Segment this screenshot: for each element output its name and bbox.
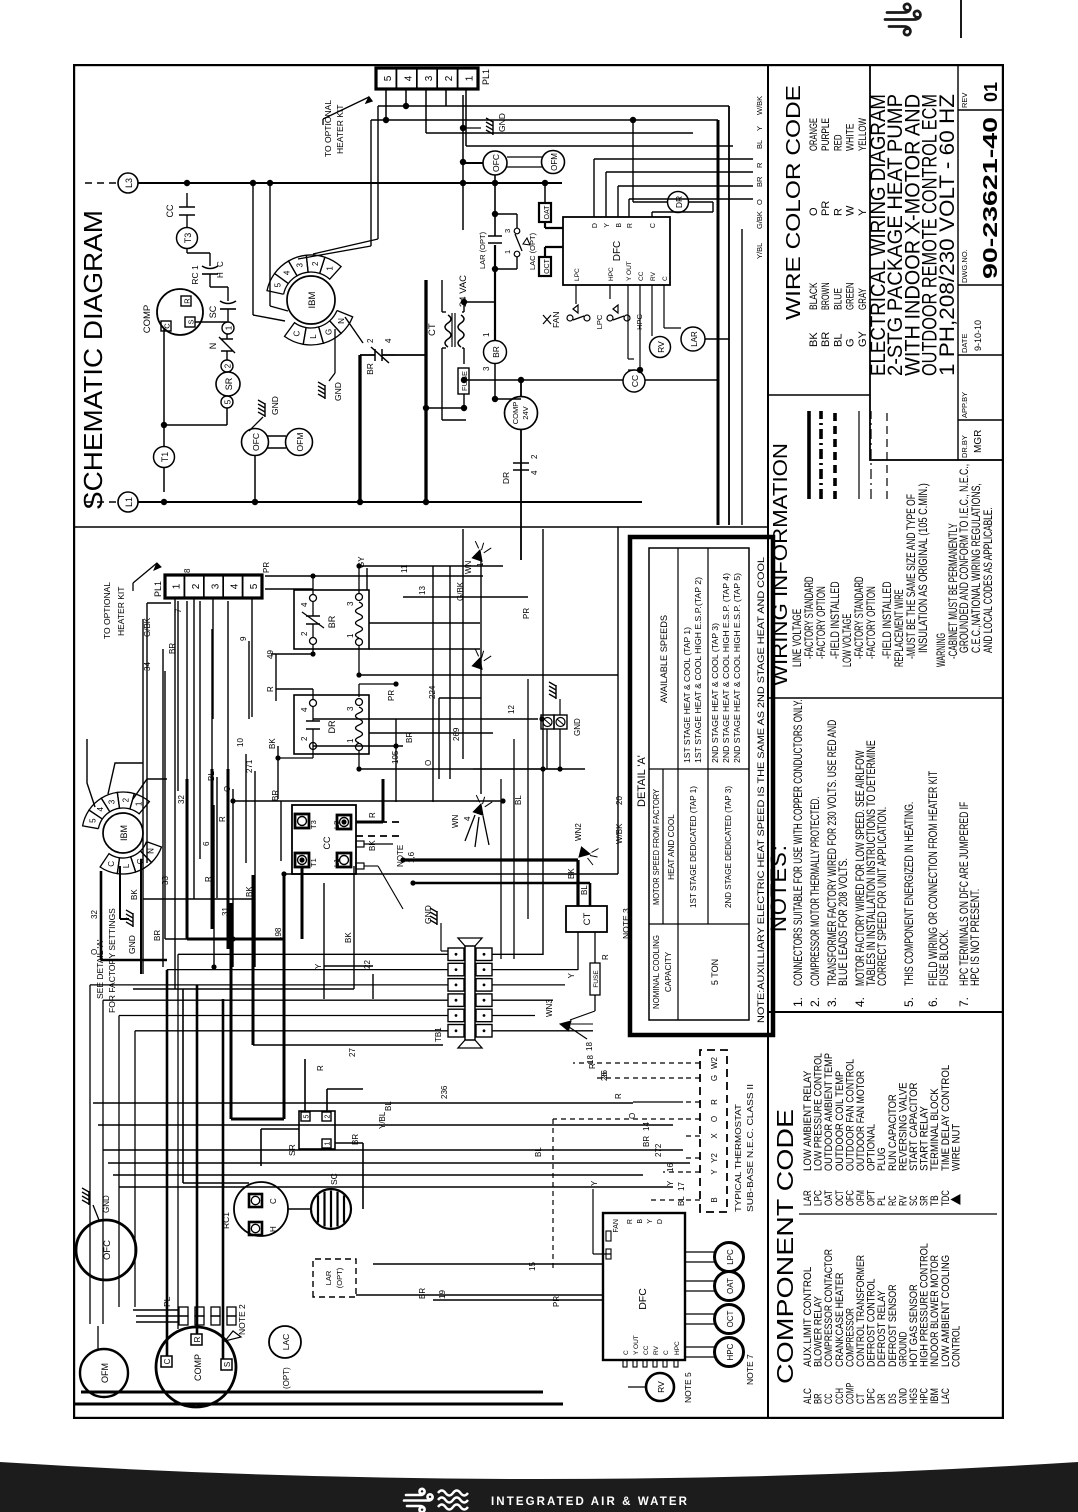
svg-text:Y: Y — [857, 208, 869, 216]
svg-text:GREEN: GREEN — [845, 282, 857, 310]
node wirelabel-G/BK — [755, 211, 764, 229]
node LAR-opt — [313, 1259, 356, 1297]
node WN-mid — [472, 649, 492, 670]
svg-text:13: 13 — [418, 586, 427, 595]
svg-text:DATE: DATE — [960, 334, 969, 353]
node HPC-circ — [685, 1338, 744, 1367]
svg-text:BK: BK — [808, 332, 820, 347]
wire — [253, 875, 443, 1045]
svg-text:SC: SC — [208, 305, 218, 318]
svg-text:5: 5 — [274, 282, 283, 287]
svg-text:THIS COMPONENT ENERGIZED IN HE: THIS COMPONENT ENERGIZED IN HEATING. — [902, 802, 916, 986]
svg-text:NOTES:: NOTES: — [766, 844, 791, 932]
svg-text:R: R — [266, 686, 275, 692]
svg-text:CORRECT SPEED FOR UNIT APPLICA: CORRECT SPEED FOR UNIT APPLICATION. — [875, 807, 889, 986]
wire — [576, 285, 681, 373]
svg-text:-FACTORY OPTION: -FACTORY OPTION — [814, 586, 828, 659]
svg-text:L: L — [122, 863, 131, 868]
svg-text:R: R — [627, 223, 634, 228]
ground — [423, 905, 448, 951]
svg-text:CAPACITY: CAPACITY — [664, 951, 673, 992]
svg-text:RV: RV — [650, 271, 657, 281]
svg-text:BR: BR — [365, 363, 375, 375]
wire — [444, 89, 560, 106]
transformer CT — [427, 275, 469, 348]
wire — [164, 408, 227, 425]
svg-text:SCHEMATIC DIAGRAM: SCHEMATIC DIAGRAM — [78, 210, 108, 510]
svg-text:BROWN: BROWN — [820, 282, 832, 310]
svg-text:Y: Y — [604, 223, 611, 228]
svg-text:32: 32 — [90, 910, 99, 919]
svg-text:O: O — [223, 786, 232, 792]
wire — [705, 338, 729, 340]
svg-text:236: 236 — [440, 1085, 449, 1099]
wire — [741, 229, 743, 525]
svg-text:DR: DR — [501, 472, 511, 484]
svg-text:COMPRESSOR MOTOR THERMALLY PRO: COMPRESSOR MOTOR THERMALLY PROTECTED. — [808, 797, 822, 986]
svg-text:NOTE 5: NOTE 5 — [683, 1372, 693, 1403]
svg-text:C: C — [163, 1358, 172, 1364]
svg-text:4: 4 — [463, 816, 472, 821]
wire L1-rail — [138, 501, 642, 503]
svg-text:ORANGE: ORANGE — [808, 118, 820, 151]
node thermostat-tags — [586, 1055, 686, 1206]
ground — [249, 396, 280, 431]
inductor CC-coil — [623, 370, 645, 392]
node PL1-conn — [153, 575, 262, 598]
svg-text:2: 2 — [300, 631, 309, 636]
svg-text:H: H — [216, 272, 225, 278]
wire top-divider — [960, 0, 962, 38]
node heater-label2 — [102, 563, 161, 639]
wire — [395, 354, 426, 356]
svg-text:LAR (OPT): LAR (OPT) — [478, 231, 487, 269]
svg-text:1: 1 — [325, 266, 334, 271]
svg-text:OFM: OFM — [295, 433, 305, 452]
svg-text:Y: Y — [755, 126, 764, 131]
fuse FUSE — [426, 348, 469, 411]
wire — [683, 1077, 700, 1079]
svg-text:105: 105 — [391, 750, 400, 764]
svg-text:OAT: OAT — [726, 1278, 735, 1294]
svg-text:OFC: OFC — [102, 1240, 113, 1260]
svg-text:G/BK: G/BK — [456, 581, 465, 601]
svg-text:COMP: COMP — [511, 402, 520, 425]
wire — [630, 117, 713, 212]
svg-text:2: 2 — [530, 454, 539, 459]
svg-text:LAR: LAR — [690, 331, 699, 347]
svg-text:NOTE: NOTE — [396, 845, 405, 867]
svg-text:3: 3 — [503, 229, 512, 233]
svg-text:OAT: OAT — [544, 205, 551, 220]
svg-text:BK: BK — [344, 932, 353, 943]
svg-text:RC 1: RC 1 — [190, 265, 200, 285]
svg-text:R: R — [710, 1099, 719, 1105]
wire — [560, 106, 729, 525]
svg-text:G/BK: G/BK — [755, 211, 764, 229]
svg-text:APP.BY: APP.BY — [960, 392, 969, 418]
svg-text:1: 1 — [503, 250, 512, 254]
svg-text:R: R — [601, 954, 610, 960]
wire — [423, 280, 429, 505]
svg-text:N: N — [147, 848, 156, 854]
svg-text:BLUE: BLUE — [832, 288, 844, 310]
node NOTE2 — [237, 1304, 247, 1335]
svg-text:B: B — [710, 1197, 719, 1202]
svg-text:RV: RV — [656, 1381, 666, 1393]
svg-text:Y/BL: Y/BL — [378, 1111, 387, 1129]
svg-text:SR: SR — [224, 377, 234, 390]
svg-text:C: C — [293, 330, 302, 336]
wire — [461, 377, 623, 399]
svg-text:3: 3 — [210, 583, 221, 589]
svg-text:GND: GND — [573, 718, 582, 736]
wire — [553, 1063, 683, 1269]
wire — [175, 598, 252, 989]
svg-text:DFC: DFC — [637, 1288, 649, 1310]
wire O-32 — [90, 871, 167, 960]
svg-text:1 PH,208/230 VOLT - 60 HZ: 1 PH,208/230 VOLT - 60 HZ — [936, 94, 959, 376]
svg-text:TB1: TB1 — [434, 1027, 443, 1042]
wire — [683, 1118, 700, 1120]
node LAC — [269, 1326, 301, 1389]
svg-text:INSULATION AS ORIGINAL (105 C.: INSULATION AS ORIGINAL (105 C.MIN.) — [916, 483, 930, 653]
wire dashed-BK-R — [356, 812, 416, 867]
svg-text:R: R — [368, 812, 377, 818]
node DR-relay — [294, 695, 369, 754]
wire wiringinfo-colorcode-divider — [768, 394, 870, 396]
wire — [161, 329, 167, 447]
svg-text:T1: T1 — [160, 452, 170, 463]
wire relay-connectors — [278, 566, 396, 769]
transistor IBM-conn — [83, 792, 162, 874]
svg-text:RV: RV — [656, 341, 666, 353]
svg-text:DETAIL 'A': DETAIL 'A' — [636, 755, 648, 807]
node wiring-information — [770, 411, 995, 686]
svg-text:5 TON: 5 TON — [710, 959, 720, 985]
wire — [466, 89, 733, 146]
svg-text:WHITE: WHITE — [845, 124, 857, 152]
svg-text:Y: Y — [590, 1180, 599, 1186]
svg-text:R: R — [316, 1065, 325, 1071]
wire WBK-20 — [615, 527, 624, 874]
wire — [461, 299, 495, 312]
svg-text:2ND STAGE DEDICATED (TAP 3): 2ND STAGE DEDICATED (TAP 3) — [724, 786, 733, 908]
wire — [590, 1180, 611, 1254]
svg-text:NOTE:AUXILLIARY ELECTRIC HEAT: NOTE:AUXILLIARY ELECTRIC HEAT SPEED IS T… — [756, 557, 766, 1023]
svg-text:01: 01 — [981, 82, 1001, 102]
wire — [231, 1118, 284, 1121]
wire — [460, 95, 466, 230]
svg-text:IBM: IBM — [119, 825, 129, 841]
node OFM2 — [507, 151, 565, 174]
svg-text:GND: GND — [497, 113, 507, 132]
svg-text:CC: CC — [322, 836, 332, 849]
wire — [128, 1304, 183, 1322]
svg-text:2.: 2. — [808, 997, 822, 1007]
node footer-bar — [0, 1455, 1078, 1512]
svg-text:OFM: OFM — [550, 153, 559, 171]
node HPC-switch — [607, 305, 644, 330]
svg-text:31: 31 — [221, 907, 230, 916]
node wirelabel-BL — [755, 140, 764, 149]
svg-text:PR: PR — [552, 1296, 561, 1307]
svg-text:2ND STAGE HEAT & COOL HIGH E.S: 2ND STAGE HEAT & COOL HIGH E.S.P. (TAP 4… — [722, 573, 731, 763]
svg-text:10: 10 — [236, 738, 245, 747]
svg-text:5: 5 — [383, 75, 394, 81]
svg-text:5: 5 — [249, 583, 260, 589]
node PL-plug — [162, 1296, 236, 1325]
node see-detail — [95, 908, 117, 1013]
svg-text:OFC: OFC — [491, 154, 501, 172]
svg-text:3.: 3. — [825, 997, 839, 1007]
svg-text:7: 7 — [174, 608, 183, 613]
svg-text:G: G — [325, 329, 334, 335]
svg-text:W/BK: W/BK — [615, 823, 624, 844]
op-amp DFC — [563, 217, 670, 285]
wire — [606, 172, 753, 217]
svg-text:DR: DR — [327, 720, 337, 733]
svg-text:O: O — [808, 207, 820, 216]
wire — [442, 280, 466, 420]
wire field-v — [75, 566, 690, 1404]
node BR-relay — [294, 590, 369, 649]
node OFM — [286, 429, 313, 456]
wire — [267, 180, 288, 311]
wire — [378, 89, 444, 109]
svg-text:BK: BK — [368, 840, 377, 851]
svg-text:CONTROL: CONTROL — [950, 1326, 962, 1367]
svg-text:OFC: OFC — [251, 433, 261, 451]
svg-text:269: 269 — [452, 727, 461, 741]
svg-text:2: 2 — [325, 1114, 332, 1118]
svg-text:MGR: MGR — [973, 430, 984, 453]
wire — [560, 120, 718, 525]
svg-text:1.: 1. — [791, 997, 805, 1007]
wire — [298, 120, 371, 259]
wire — [371, 89, 560, 123]
svg-text:9: 9 — [239, 636, 248, 641]
svg-text:REV: REV — [960, 93, 969, 108]
svg-text:-FACTORY OPTION: -FACTORY OPTION — [864, 586, 878, 659]
wire — [683, 1157, 700, 1159]
svg-text:OCT: OCT — [544, 258, 551, 274]
svg-text:18: 18 — [585, 1042, 594, 1051]
svg-text:7.: 7. — [957, 997, 971, 1007]
svg-text:BL: BL — [755, 140, 764, 149]
svg-text:BR: BR — [271, 790, 280, 801]
svg-text:Y: Y — [666, 1180, 675, 1186]
svg-text:L1: L1 — [332, 859, 341, 867]
svg-text:1: 1 — [134, 801, 143, 806]
fuse FUSE2 — [590, 932, 610, 1011]
node component-code — [772, 1053, 997, 1404]
svg-text:R: R — [614, 1093, 623, 1099]
wire — [567, 932, 578, 989]
wire — [683, 1101, 700, 1103]
node wirelabel-R — [755, 162, 764, 168]
wire — [345, 317, 363, 505]
svg-text:NOTE 2: NOTE 2 — [237, 1304, 247, 1335]
svg-text:NOMINAL COOLING: NOMINAL COOLING — [652, 935, 661, 1009]
node FAN-label — [543, 311, 561, 328]
svg-text:R: R — [832, 208, 844, 216]
node LPC-switch — [567, 305, 604, 329]
node wire-color-code — [783, 85, 869, 347]
svg-text:HEATER KIT: HEATER KIT — [116, 587, 126, 636]
node wirelabel-Y/BL — [755, 243, 764, 259]
svg-text:DR: DR — [674, 196, 684, 208]
wire BK-C — [130, 859, 141, 974]
node LAR-opt-sw — [478, 175, 512, 302]
svg-text:PURPLE: PURPLE — [820, 118, 832, 151]
svg-text:1: 1 — [482, 332, 491, 337]
node L3 — [85, 173, 138, 193]
svg-text:C: C — [163, 323, 172, 329]
inductor DR-coil — [668, 192, 689, 213]
svg-text:20: 20 — [615, 796, 624, 805]
svg-text:5.: 5. — [902, 997, 916, 1007]
wire strip-top — [767, 65, 769, 1418]
svg-text:T3: T3 — [309, 820, 318, 829]
svg-text:RED: RED — [832, 134, 844, 151]
svg-text:1: 1 — [346, 633, 355, 638]
svg-text:AND LOCAL CODES AS APPLICABLE.: AND LOCAL CODES AS APPLICABLE. — [981, 508, 995, 654]
svg-text:BR: BR — [327, 615, 337, 628]
node T3 — [177, 228, 198, 254]
wire — [520, 429, 522, 560]
capacitor DR-contact — [501, 454, 539, 484]
svg-text:BR: BR — [820, 332, 832, 347]
svg-text:PR: PR — [820, 201, 832, 216]
svg-text:FAN: FAN — [613, 1219, 620, 1233]
svg-text:HPC IS NOT PRESENT.: HPC IS NOT PRESENT. — [968, 889, 982, 986]
wire border — [74, 65, 1003, 1418]
svg-text:4: 4 — [403, 75, 414, 81]
svg-text:27: 27 — [348, 1048, 357, 1057]
node junction-dots — [211, 563, 562, 969]
svg-text:MOTOR SPEED FROM FACTORY: MOTOR SPEED FROM FACTORY — [652, 789, 661, 905]
capacitor CC-contact — [165, 180, 195, 227]
node L1 — [85, 492, 138, 512]
node T1 — [154, 447, 175, 468]
node PL1-schem — [376, 68, 491, 89]
svg-text:FUSE BLOCK.: FUSE BLOCK. — [937, 930, 951, 986]
svg-text:17: 17 — [677, 1182, 686, 1191]
node OCT — [539, 247, 563, 276]
svg-text:Y OUT: Y OUT — [633, 1335, 640, 1355]
svg-text:X: X — [710, 1133, 719, 1139]
svg-text:R: R — [627, 1219, 634, 1224]
wire — [645, 379, 718, 381]
node schematic-title — [78, 210, 108, 510]
svg-text:Y/BL: Y/BL — [755, 243, 764, 259]
svg-text:5: 5 — [304, 1114, 311, 1118]
svg-text:4: 4 — [230, 583, 241, 589]
ground — [463, 113, 507, 135]
svg-text:3: 3 — [296, 263, 305, 268]
node wirelabel-Y — [755, 126, 764, 131]
svg-text:(OPT): (OPT) — [282, 1367, 291, 1389]
svg-text:D: D — [592, 223, 599, 228]
svg-text:1: 1 — [225, 325, 234, 330]
svg-text:2: 2 — [311, 261, 320, 266]
svg-text:H: H — [269, 1226, 278, 1232]
svg-text:CONNECTORS SUITABLE FOR USE WI: CONNECTORS SUITABLE FOR USE WITH COPPER … — [791, 699, 805, 986]
svg-text:1: 1 — [172, 583, 183, 589]
svg-text:FUSE: FUSE — [593, 970, 600, 988]
svg-text:TYPICAL THERMOSTAT: TYPICAL THERMOSTAT — [733, 1104, 743, 1212]
svg-text:C: C — [662, 276, 669, 281]
svg-text:4: 4 — [384, 338, 393, 343]
transistor COMP-conn — [156, 1327, 241, 1407]
svg-text:WN: WN — [451, 814, 460, 828]
svg-text:15: 15 — [528, 1262, 537, 1271]
transformer CT-conn — [566, 906, 631, 939]
wire notes-wiring-divider — [768, 697, 1003, 699]
svg-text:CC: CC — [165, 204, 175, 217]
capacitor BR-contact — [360, 338, 395, 375]
svg-text:S: S — [187, 319, 196, 324]
svg-text:BL: BL — [534, 1147, 543, 1157]
svg-text:WIRE COLOR CODE: WIRE COLOR CODE — [783, 85, 805, 320]
wire — [267, 436, 286, 448]
svg-text:L: L — [309, 334, 318, 339]
svg-text:4: 4 — [300, 707, 309, 712]
svg-text:C: C — [216, 261, 225, 267]
transistor IBM — [267, 255, 353, 345]
wire — [313, 106, 378, 254]
svg-text:PL1: PL1 — [153, 581, 163, 597]
transistor COMP — [142, 289, 203, 335]
svg-text:16: 16 — [666, 1163, 675, 1172]
wire field-h — [143, 529, 543, 1119]
wire — [683, 1171, 700, 1173]
svg-text:1: 1 — [346, 738, 355, 743]
wire — [161, 468, 167, 505]
svg-text:LAC (OPT): LAC (OPT) — [528, 232, 537, 270]
svg-text:GND: GND — [423, 905, 433, 924]
svg-text:33: 33 — [161, 876, 170, 885]
svg-text:T3: T3 — [183, 233, 193, 244]
svg-text:2: 2 — [191, 583, 202, 589]
svg-text:O: O — [628, 1113, 637, 1119]
wire — [426, 89, 693, 133]
svg-text:FAN: FAN — [551, 311, 561, 328]
node thermostat — [700, 1050, 755, 1212]
node wirelabel-BR — [755, 176, 764, 187]
svg-text:2: 2 — [224, 363, 233, 368]
svg-text:T1: T1 — [309, 858, 318, 867]
node wirelabel-W/BK — [755, 96, 764, 115]
svg-text:WIRE NUT: WIRE NUT — [950, 1124, 962, 1171]
svg-text:L3: L3 — [124, 178, 134, 188]
svg-text:W/BK: W/BK — [755, 96, 764, 115]
svg-text:271: 271 — [245, 759, 254, 773]
node LAC-opt-sw — [495, 214, 537, 270]
svg-text:Y: Y — [710, 1169, 719, 1175]
node WN3 — [545, 999, 609, 1079]
wire — [683, 1199, 700, 1201]
svg-text:N: N — [337, 318, 346, 324]
svg-text:Y: Y — [567, 972, 576, 978]
svg-text:BLUE LEADS FOR 208 VOLTS.: BLUE LEADS FOR 208 VOLTS. — [836, 858, 850, 986]
wire — [356, 841, 403, 909]
svg-text:RV: RV — [653, 1345, 660, 1355]
svg-text:34: 34 — [143, 662, 152, 671]
svg-text:Y OUT: Y OUT — [626, 261, 633, 281]
ground — [120, 866, 137, 954]
